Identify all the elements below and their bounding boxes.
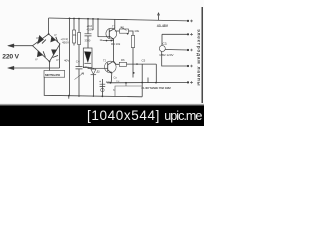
svg-text:10n: 10n <box>106 80 111 84</box>
svg-text:upic.me: upic.me <box>164 109 202 123</box>
svg-text:[1040x544]: [1040x544] <box>87 108 160 123</box>
svg-text:R1: R1 <box>73 33 77 37</box>
svg-text:40V: 40V <box>64 59 69 63</box>
svg-text:Б: Б <box>113 88 115 92</box>
svg-text:C4: C4 <box>76 60 80 64</box>
svg-text:100n: 100n <box>83 65 89 69</box>
svg-text:Д5: Д5 <box>97 69 101 73</box>
svg-text:T1: T1 <box>112 25 116 29</box>
svg-text:R6: R6 <box>121 58 125 62</box>
svg-text:MR750x250: MR750x250 <box>45 73 60 77</box>
svg-text:400V: 400V <box>87 27 94 31</box>
svg-text:MB2 120V: MB2 120V <box>160 53 174 57</box>
svg-text:43-48V: 43-48V <box>157 24 169 28</box>
svg-text:Сн: Сн <box>116 79 120 83</box>
svg-text:C5: C5 <box>142 58 146 62</box>
svg-text:3300: 3300 <box>85 39 91 43</box>
svg-text:R4 10k: R4 10k <box>111 42 121 46</box>
svg-text:R2: R2 <box>121 25 125 29</box>
svg-text:220 V: 220 V <box>2 53 19 60</box>
svg-text:40-407 МАКЕ 7/32 1982: 40-407 МАКЕ 7/32 1982 <box>141 86 171 90</box>
svg-text:450V: 450V <box>62 40 69 44</box>
svg-text:10k: 10k <box>134 29 139 33</box>
svg-text:электродам лампы: электродам лампы <box>195 29 200 86</box>
svg-text:C3: C3 <box>163 42 167 46</box>
